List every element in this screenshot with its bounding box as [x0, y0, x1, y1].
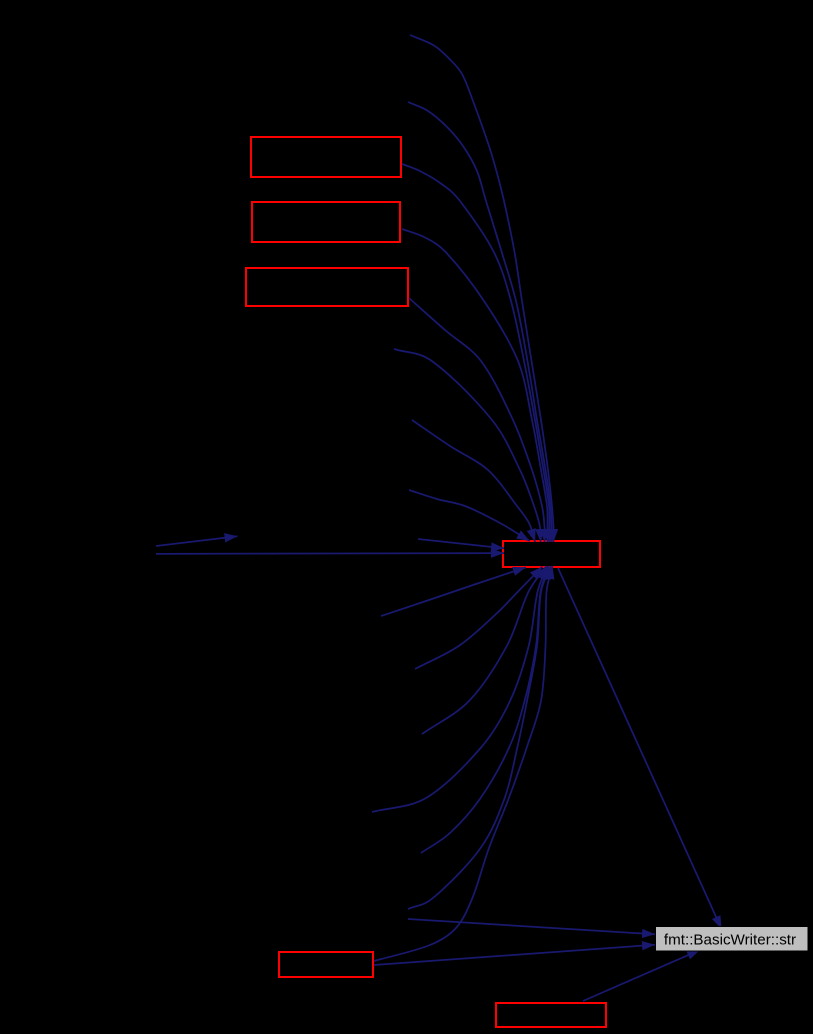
wire edge G3 from node BL to node str: [374, 945, 655, 965]
wire stray arrow between hidden nodes: [156, 536, 238, 546]
node N2 truncated red box (caller, label hidden): [252, 202, 400, 242]
wire edge T1 into node hub top: [410, 35, 554, 542]
wire edge B7 curve from node BL to node hub bottom: [374, 566, 552, 961]
node N1 truncated red box (caller, label hidden): [251, 137, 401, 177]
wire edge T5 from node B3 to node hub top: [409, 298, 545, 542]
wire edge B3 into node hub bottom: [422, 566, 546, 734]
wire edge B1 into node hub bottom-left: [381, 567, 526, 616]
wire edge B5 into node hub bottom: [421, 566, 549, 853]
wire edge T4 from node B2 to node hub top: [402, 229, 548, 542]
wire edge T8 into node hub top-left corner: [409, 490, 530, 541]
node BL truncated red box bottom-left (label hidden): [279, 952, 373, 977]
wire edge T2 into node hub top: [408, 102, 552, 542]
node BC truncated red box bottom-center (label hidden): [496, 1003, 606, 1027]
wire edge G4 from node BC to node str: [583, 950, 700, 1001]
wire edge B4 into node hub bottom: [372, 566, 547, 812]
wire edge L2 long horizontal into node hub left: [156, 552, 504, 555]
wire edge T7 into node hub top: [412, 420, 535, 542]
wire edge B6 curve into node hub bottom: [408, 566, 551, 909]
node HUB central truncated red box (label hidden): [503, 541, 600, 567]
wire edge G1 from node hub to node str: [558, 568, 722, 929]
wire edge T3 from node B1 to node hub top: [402, 164, 550, 542]
node N3 truncated red box (caller, label hidden): [246, 268, 408, 306]
svg-text:fmt::BasicWriter::str: fmt::BasicWriter::str: [664, 932, 796, 949]
wire edge L1 into node hub left: [418, 539, 504, 548]
wire edge B2 into node hub bottom: [415, 567, 542, 669]
wire edge G2 from hidden node to node str: [408, 919, 655, 934]
node str current-function box fmt::BasicWriter::str: [656, 927, 809, 952]
wire edge T6 into node hub top: [394, 349, 541, 542]
